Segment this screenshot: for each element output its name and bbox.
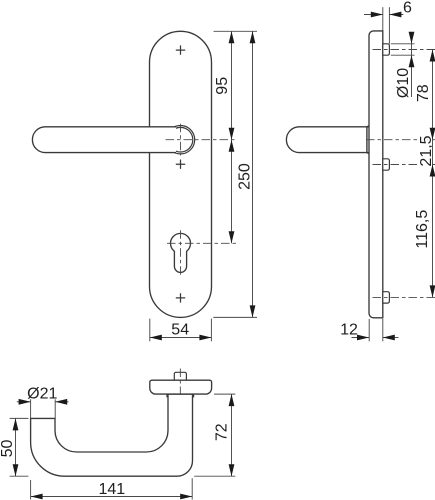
svg-text:12: 12 bbox=[340, 321, 358, 338]
svg-text:141: 141 bbox=[98, 481, 125, 498]
svg-text:95: 95 bbox=[214, 77, 231, 95]
svg-text:116,5: 116,5 bbox=[414, 210, 431, 249]
svg-text:250: 250 bbox=[236, 163, 253, 190]
svg-text:54: 54 bbox=[171, 322, 189, 339]
svg-text:Ø10: Ø10 bbox=[395, 68, 412, 98]
svg-text:50: 50 bbox=[0, 440, 16, 458]
svg-text:78: 78 bbox=[415, 84, 432, 102]
svg-text:Ø21: Ø21 bbox=[27, 386, 57, 403]
svg-text:72: 72 bbox=[214, 423, 231, 441]
svg-text:6: 6 bbox=[403, 0, 412, 16]
